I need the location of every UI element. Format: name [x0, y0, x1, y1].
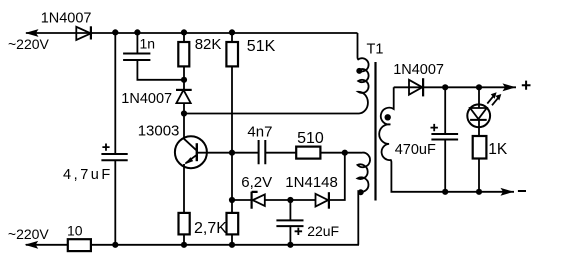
svg-text:1N4007: 1N4007 [121, 91, 172, 107]
svg-text:1N4007: 1N4007 [393, 62, 444, 78]
svg-text:2,7K: 2,7K [194, 220, 227, 237]
svg-text:6,2V: 6,2V [241, 174, 272, 191]
svg-text:470uF: 470uF [395, 142, 436, 158]
svg-text:10: 10 [67, 223, 83, 239]
svg-text:1N4007: 1N4007 [41, 11, 92, 27]
svg-text:510: 510 [297, 130, 324, 147]
svg-text:82K: 82K [195, 36, 222, 53]
svg-text:1n: 1n [140, 35, 156, 51]
svg-text:~220V: ~220V [8, 36, 50, 52]
svg-text:22uF: 22uF [307, 223, 339, 239]
svg-text:13003: 13003 [138, 123, 180, 140]
svg-text:4n7: 4n7 [247, 123, 272, 140]
svg-text:~220V: ~220V [8, 226, 50, 242]
svg-text:T1: T1 [367, 42, 384, 58]
svg-text:1K: 1K [488, 141, 508, 158]
svg-text:51K: 51K [247, 38, 276, 55]
svg-text:1N4148: 1N4148 [285, 174, 338, 191]
svg-text:4,7uF: 4,7uF [63, 167, 113, 183]
